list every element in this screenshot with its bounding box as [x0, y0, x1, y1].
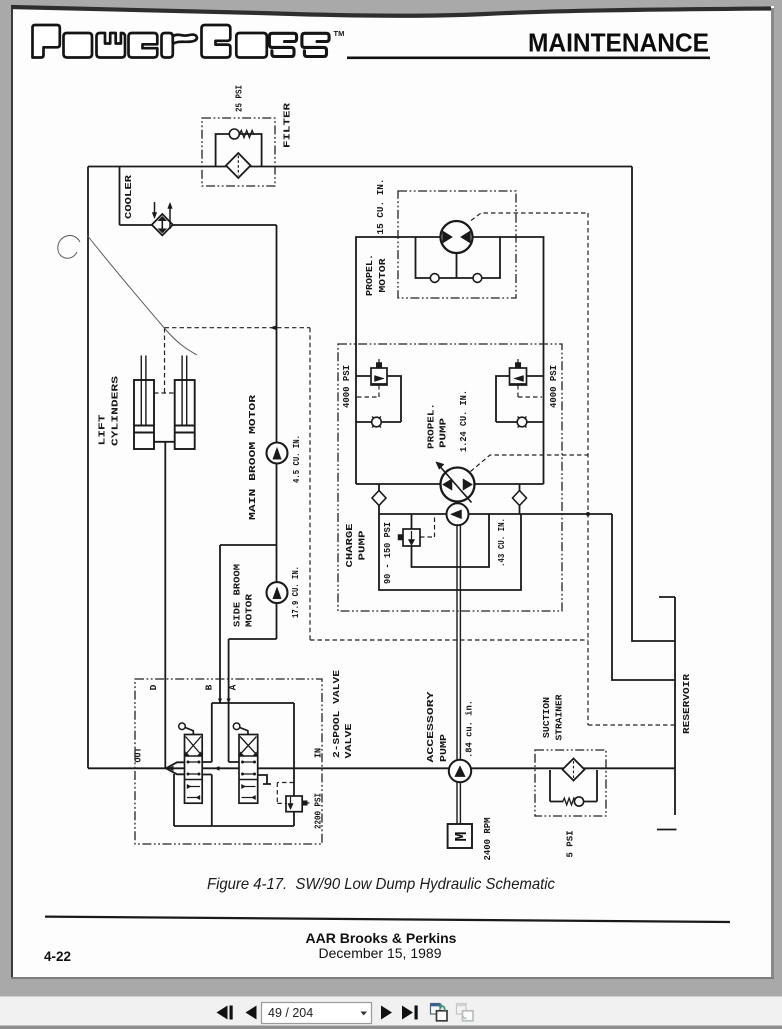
svg-text:M: M	[452, 831, 471, 841]
node: drain junction on charge line	[586, 512, 590, 516]
MAINTENANCE heading	[528, 28, 709, 58]
svg-text:1.24 CU. IN.: 1.24 CU. IN.	[458, 390, 469, 452]
label 5 PSI	[565, 830, 576, 857]
wire: makeup check stems	[379, 484, 520, 514]
drain line: bottom to reservoir	[588, 724, 675, 726]
PowerBoss logo	[33, 25, 330, 58]
wire: charge pressure line	[379, 513, 612, 515]
wire: motor shuttle sub-loop	[416, 237, 501, 278]
label 4000 PSI left	[341, 365, 352, 408]
svg-text:B: B	[204, 684, 215, 690]
wire: cooler branch horizontal	[120, 224, 277, 226]
toolbar page input	[262, 1003, 372, 1024]
wire: right return vertical	[632, 167, 675, 642]
svg-text:4000 PSI: 4000 PSI	[548, 365, 559, 408]
svg-text:.43 CU. IN.: .43 CU. IN.	[496, 518, 507, 567]
svg-text:TM: TM	[334, 29, 345, 38]
label .43 CU. IN.	[496, 518, 507, 567]
svg-text:CYLINDERS: CYLINDERS	[110, 376, 121, 446]
toolbar first-page button	[217, 1006, 233, 1020]
wire: pump drive shaft lower	[457, 782, 460, 824]
relief valve RV4 2200 PSI	[286, 796, 310, 812]
wire: OUT port stubs	[166, 762, 185, 774]
propel pump P1	[436, 462, 475, 503]
check valve right loop	[517, 417, 527, 428]
check valve left loop	[372, 417, 382, 428]
label PROPEL. PUMP	[426, 403, 449, 449]
page number 4-22	[44, 949, 71, 964]
pilot line: right 4000 relief	[518, 385, 542, 397]
spool valve V1 left	[185, 735, 203, 804]
trademark TM	[334, 29, 345, 38]
drain line: propel motor case	[471, 213, 588, 221]
label SUCTION STRAINER	[541, 694, 565, 740]
dash-dot enclosure: pump assembly	[338, 344, 562, 611]
svg-text:IN: IN	[313, 748, 324, 758]
scanned dark top edge band	[11, 6, 771, 16]
label 4.5 CU. IN.	[291, 435, 302, 483]
logo letter B	[202, 25, 231, 58]
wire: right relief branch	[496, 376, 544, 422]
label B	[204, 684, 215, 690]
makeup check diamond left	[372, 491, 386, 506]
toolbar next button	[381, 1006, 392, 1020]
wire: strainer bypass loop	[550, 770, 597, 802]
footer rule	[45, 916, 730, 924]
dash-dot enclosure: 2-spool valve	[135, 679, 322, 844]
lift cylinder left	[134, 356, 154, 450]
arrow: OUT junction	[168, 766, 173, 771]
svg-text:COOLER: COOLER	[123, 175, 134, 219]
scan artifact: pen loop	[58, 236, 80, 259]
spool valve V1 lever	[179, 723, 194, 735]
logo letter P	[33, 25, 60, 58]
svg-text:25 PSI: 25 PSI	[234, 85, 245, 112]
wire: charge relief branch	[412, 514, 490, 567]
wire: pump drive shaft upper	[457, 525, 460, 760]
filter bypass check valve	[229, 129, 253, 139]
wire: cooler feed vertical	[119, 167, 121, 226]
pilot line: left 4000 relief	[357, 385, 379, 397]
label FILTER	[282, 103, 293, 148]
label IN	[313, 748, 324, 758]
relief valve RV2 4000 PSI right	[510, 359, 527, 385]
main broom motor M2	[267, 443, 288, 464]
toolbar prev button	[246, 1006, 257, 1020]
logo letter o2	[236, 33, 266, 58]
svg-text:MAIN BROOM MOTOR: MAIN BROOM MOTOR	[247, 395, 258, 520]
label COOLER	[123, 175, 134, 219]
wire: spool port stubs	[202, 762, 239, 775]
arrow: A line into valve	[227, 699, 231, 704]
toolbar last-page button	[402, 1006, 418, 1020]
pilot line: charge relief	[420, 515, 435, 537]
svg-text:15 CU. IN.: 15 CU. IN.	[375, 179, 386, 235]
label 4000 PSI right	[548, 365, 559, 408]
relief valve RV1 4000 PSI left	[371, 359, 387, 385]
dash-dot enclosure: filter	[202, 118, 275, 186]
svg-text:4000 PSI: 4000 PSI	[341, 365, 352, 408]
logo letter s1	[269, 33, 296, 56]
svg-text:SIDE BROOM: SIDE BROOM	[232, 564, 243, 627]
logo letter o1	[64, 33, 93, 58]
label .84 cu. in.	[464, 700, 475, 758]
charge relief valve 90-150	[398, 529, 420, 546]
arrow: main line at valve	[215, 766, 220, 771]
svg-text:STRAINER: STRAINER	[554, 694, 565, 740]
pilot line: 2200 relief	[277, 783, 294, 804]
label CHARGE PUMP	[344, 523, 368, 567]
label 90 - 150 PSI	[382, 522, 393, 584]
wire: broom motors supply vertical	[276, 225, 278, 639]
pilot line: lift cylinders	[154, 328, 175, 393]
svg-text:PUMP: PUMP	[357, 530, 368, 560]
svg-text:5 PSI: 5 PSI	[565, 830, 576, 857]
figure caption	[207, 876, 555, 893]
wire: charge pump sub-box	[379, 514, 521, 590]
propel motor U1	[441, 221, 473, 253]
wire: main top return line to filter and right side	[88, 166, 632, 168]
arrow: B line into valve	[218, 699, 222, 704]
arrow: pilot to broom line	[270, 325, 277, 330]
footer company	[306, 930, 457, 946]
svg-text:PROPEL.: PROPEL.	[426, 403, 437, 449]
svg-text:SUCTION: SUCTION	[541, 697, 552, 738]
lift cylinder right	[175, 356, 195, 450]
wire: side broom B-line tee	[220, 545, 277, 703]
svg-text:OUT: OUT	[133, 747, 144, 762]
electric motor M1	[448, 824, 472, 848]
wire: right spool tank drain	[258, 775, 271, 784]
svg-text:VALVE: VALVE	[343, 723, 354, 758]
dash-dot enclosure: propel motor	[398, 191, 516, 298]
svg-text:2200 PSI: 2200 PSI	[313, 793, 324, 829]
label 25 PSI	[234, 85, 245, 112]
label 17.9 CU. IN.	[290, 566, 301, 618]
spool valve V2 lever	[233, 723, 248, 735]
svg-text:CHARGE: CHARGE	[344, 523, 355, 567]
svg-text:90 - 150 PSI: 90 - 150 PSI	[382, 522, 393, 584]
svg-text:LIFT: LIFT	[97, 414, 108, 445]
suction strainer S1	[563, 759, 585, 781]
label RESERVOIR	[681, 674, 692, 734]
side broom motor M3	[267, 582, 288, 603]
makeup check diamond right	[513, 491, 527, 506]
cooler symbol	[152, 202, 173, 235]
wire: left relief branch	[356, 376, 401, 422]
svg-text:.84 cu. in.: .84 cu. in.	[464, 700, 475, 758]
logo letter e	[129, 33, 158, 58]
heading underline	[347, 57, 710, 60]
shuttle check valves	[430, 274, 481, 283]
label ACCESSORY PUMP	[425, 691, 449, 762]
svg-text:December 15, 1989: December 15, 1989	[319, 945, 442, 961]
pilot line: dashed enclosure bottom	[310, 639, 588, 641]
svg-text:2-SPOOL VALVE: 2-SPOOL VALVE	[331, 670, 342, 758]
wire: propel loop bottom edge	[356, 483, 544, 485]
svg-text:MOTOR: MOTOR	[377, 258, 388, 292]
logo letter w	[97, 33, 126, 58]
wire: propel motor loop left	[356, 237, 544, 484]
dash-dot enclosure: suction strainer	[535, 750, 606, 816]
accessory pump P3	[449, 760, 471, 782]
svg-text:2400 RPM: 2400 RPM	[482, 817, 493, 860]
svg-text:MAINTENANCE: MAINTENANCE	[528, 28, 709, 58]
svg-text:49 / 204: 49 / 204	[268, 1006, 313, 1020]
drain line: vertical to reservoir	[587, 213, 589, 725]
svg-text:PUMP: PUMP	[438, 418, 449, 448]
pilot line: dashed enclosure right vertical	[309, 328, 311, 640]
toolbar next-view icon disabled	[457, 1004, 474, 1021]
wire: left vertical main line	[87, 167, 89, 769]
wire: reservoir line	[659, 597, 675, 815]
filter F1 symbol	[226, 153, 251, 178]
label 2-SPOOL VALVE	[331, 670, 354, 759]
toolbar previous-view icon	[431, 1003, 448, 1020]
svg-text:RESERVOIR: RESERVOIR	[681, 674, 692, 734]
scan artifact: long pen curve	[87, 235, 197, 355]
label A	[228, 684, 239, 690]
svg-text:MOTOR: MOTOR	[244, 594, 255, 627]
svg-text:ACCESSORY: ACCESSORY	[425, 691, 436, 762]
strainer bypass check valve	[563, 797, 584, 806]
label OUT	[133, 747, 144, 762]
svg-text:D: D	[148, 684, 159, 690]
label MAIN BROOM MOTOR	[247, 395, 258, 520]
label 2200 PSI	[313, 793, 324, 829]
label LIFT CYLINDERS	[97, 376, 121, 446]
svg-text:17.9 CU. IN.: 17.9 CU. IN.	[290, 566, 301, 618]
logo letter s2	[302, 33, 329, 56]
label PROPEL. MOTOR	[364, 254, 388, 296]
svg-text:A: A	[228, 684, 239, 690]
wire: filter bypass loop	[216, 134, 262, 167]
label D	[148, 684, 159, 690]
svg-text:AAR Brooks & Perkins: AAR Brooks & Perkins	[306, 930, 457, 946]
label 2400 RPM	[482, 817, 493, 860]
svg-text:Figure 4-17. SW/90 Low Dump H: Figure 4-17. SW/90 Low Dump Hydraulic Sc…	[207, 876, 555, 893]
wire: charge suction to reservoir	[612, 514, 675, 680]
label 15 CU. IN.	[375, 179, 386, 235]
svg-text:PUMP: PUMP	[438, 734, 449, 762]
pilot line: lift circuit top dashed	[165, 327, 311, 329]
wire: lift cylinder D-line	[154, 442, 175, 768]
label 1.24 CU. IN.	[458, 390, 469, 452]
svg-text:4.5 CU. IN.: 4.5 CU. IN.	[291, 435, 302, 483]
wire: reservoir bottom bracket	[657, 829, 677, 831]
spool valve V2 right	[239, 735, 258, 804]
charge pump P2	[447, 503, 469, 525]
wire: valve inner gallery	[174, 703, 294, 826]
footer date	[319, 945, 442, 961]
svg-text:PROPEL.: PROPEL.	[364, 254, 375, 296]
drain line: propel pump case	[471, 455, 589, 472]
wire: side broom A-line	[229, 639, 277, 703]
wire: main bottom suction line	[88, 767, 675, 769]
svg-text:4-22: 4-22	[44, 949, 71, 964]
logo letter r	[162, 33, 173, 58]
label SIDE BROOM MOTOR	[232, 564, 255, 627]
svg-text:FILTER: FILTER	[282, 103, 293, 148]
toolbar background	[0, 996, 782, 1029]
